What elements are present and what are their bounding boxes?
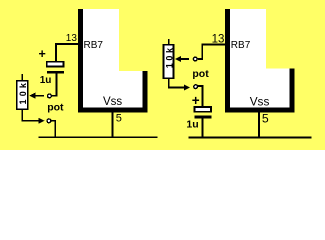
svg-text:10k: 10k (18, 80, 28, 105)
svg-text:pot: pot (192, 68, 209, 80)
wire lower terminal to ground rail (51, 121, 55, 137)
chip left border bar (78, 9, 83, 113)
resistor R2 potentiometer body 10k (164, 45, 174, 79)
wire pot wiper with arrowhead (35, 95, 45, 97)
svg-text:1u: 1u (40, 75, 52, 86)
IC U1 PIC microcontroller (chip body, white L-shape) (78, 9, 148, 113)
chip left border bar (225, 9, 230, 113)
wire pot bottom to lower terminal (169, 79, 186, 88)
chip bottom border bar (78, 108, 148, 113)
arrowhead at lower terminal (39, 118, 45, 124)
svg-text:+: + (192, 93, 200, 108)
node pot lower terminal (circle) (47, 119, 51, 123)
wire capacitor C1 to pot terminal (52, 74, 56, 96)
wire pot bottom to lower terminal (22, 110, 41, 121)
ground rail (right) (188, 137, 311, 139)
svg-text:5: 5 (116, 112, 122, 124)
capacitor C2 bottom plate (195, 116, 212, 119)
svg-text:+: + (39, 47, 46, 61)
wire pin5 to rail (111, 113, 113, 138)
node pot lower terminal (circle) (194, 85, 198, 89)
capacitor C2 top plate (195, 107, 212, 112)
arrowhead at lower terminal (184, 84, 190, 90)
wire pot top stub (168, 39, 170, 45)
svg-text:RB7: RB7 (84, 40, 104, 51)
wire wiper terminal to pin13 (198, 45, 225, 60)
wire pin5 to rail (258, 113, 260, 138)
svg-text:13: 13 (66, 33, 78, 44)
chip right border bar (143, 71, 148, 113)
node pot wiper terminal (circle) (48, 94, 52, 98)
svg-text:Vss: Vss (250, 94, 270, 108)
wire lower terminal to capacitor C2 (198, 86, 202, 106)
wire capacitor C2 to ground rail (201, 118, 203, 137)
svg-text:5: 5 (262, 111, 269, 125)
wire pin13 to capacitor C1 (56, 44, 78, 62)
node wiper terminal (circle) (193, 57, 197, 61)
chip bottom border bar (225, 108, 295, 113)
chip right border bar (290, 69, 295, 113)
svg-text:Vss: Vss (103, 96, 122, 108)
svg-text:10k: 10k (164, 45, 174, 68)
capacitor C1 top plate (47, 62, 64, 67)
capacitor C1 bottom plate (47, 71, 64, 74)
resistor R1 potentiometer body 10k (17, 81, 28, 110)
svg-text:pot: pot (47, 101, 64, 113)
wire pot top stub (21, 74, 23, 81)
wire pot wiper with arrowhead (180, 58, 189, 60)
ground rail (left) (38, 136, 157, 138)
IC U2 PIC microcontroller (chip body, white L-shape) (225, 9, 295, 113)
svg-text:1u: 1u (186, 119, 198, 131)
svg-text:RB7: RB7 (231, 40, 251, 51)
